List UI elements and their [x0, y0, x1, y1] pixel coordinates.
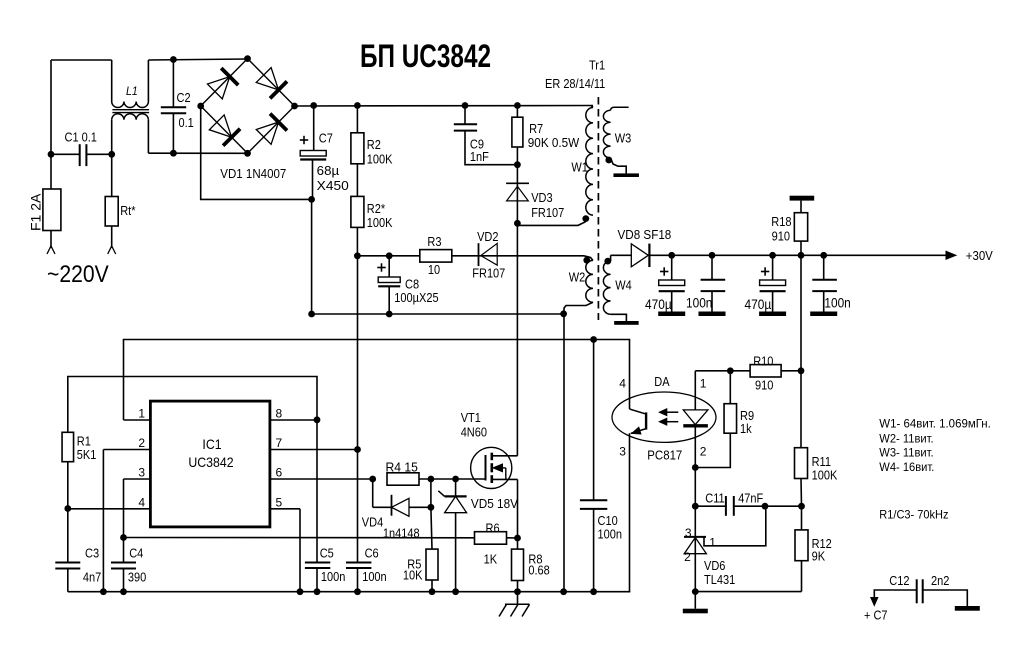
svg-text:4n7: 4n7 [83, 571, 101, 585]
svg-text:C4: C4 [129, 547, 143, 561]
svg-text:БП UC3842: БП UC3842 [360, 38, 491, 74]
svg-text:5: 5 [276, 495, 283, 509]
svg-text:1: 1 [709, 536, 716, 550]
svg-text:6: 6 [276, 466, 283, 480]
svg-text:ER 28/14/11: ER 28/14/11 [545, 77, 605, 91]
svg-text:VD5 18V: VD5 18V [471, 497, 519, 511]
svg-text:100n: 100n [362, 570, 387, 584]
svg-text:Tr1: Tr1 [589, 59, 605, 73]
svg-text:X450: X450 [317, 179, 349, 193]
svg-text:4N60: 4N60 [461, 425, 487, 439]
svg-text:3: 3 [685, 526, 692, 540]
svg-text:1nF: 1nF [470, 150, 489, 164]
svg-text:R10: R10 [753, 355, 773, 369]
svg-text:W4: W4 [615, 279, 632, 293]
svg-text:PC817: PC817 [647, 448, 682, 463]
svg-text:100n: 100n [824, 296, 850, 311]
svg-text:C5: C5 [320, 547, 334, 561]
svg-text:4: 4 [619, 377, 626, 391]
svg-text:C12: C12 [889, 574, 909, 588]
svg-text:1K: 1K [484, 553, 498, 567]
svg-text:R3: R3 [427, 235, 441, 249]
svg-text:2: 2 [138, 436, 145, 450]
svg-text:VT1: VT1 [461, 411, 481, 425]
svg-text:R9: R9 [740, 409, 754, 423]
svg-text:R6: R6 [486, 522, 500, 536]
svg-text:R2*: R2* [367, 202, 385, 216]
svg-text:UC3842: UC3842 [188, 454, 233, 470]
svg-text:C11: C11 [705, 492, 724, 506]
svg-text:F1 2A: F1 2A [28, 193, 44, 231]
svg-text:1: 1 [700, 377, 707, 391]
svg-text:100µX25: 100µX25 [394, 291, 438, 305]
svg-text:470µ: 470µ [645, 297, 672, 312]
svg-text:R18: R18 [771, 215, 791, 229]
svg-text:FR107: FR107 [531, 206, 564, 220]
svg-text:2: 2 [684, 550, 691, 564]
svg-text:Rt*: Rt* [120, 204, 135, 218]
svg-text:90K 0.5W: 90K 0.5W [528, 136, 580, 150]
svg-text:4: 4 [138, 495, 145, 509]
svg-text:R7: R7 [529, 122, 543, 136]
svg-text:R2: R2 [367, 138, 381, 152]
svg-text:W2- 11вит.: W2- 11вит. [879, 431, 933, 445]
svg-text:W1: W1 [571, 161, 588, 175]
svg-text:C3: C3 [85, 547, 99, 561]
svg-text:1k: 1k [740, 422, 752, 436]
svg-text:8: 8 [276, 407, 283, 421]
svg-text:VD1 1N4007: VD1 1N4007 [220, 167, 286, 181]
svg-text:47nF: 47nF [738, 492, 763, 506]
svg-text:TL431: TL431 [704, 573, 735, 587]
svg-text:R1/C3- 70kHz: R1/C3- 70kHz [879, 507, 948, 521]
svg-text:0.1: 0.1 [179, 116, 194, 130]
svg-text:3: 3 [138, 466, 145, 480]
svg-text:+30V: +30V [966, 248, 993, 263]
svg-text:VD2: VD2 [477, 230, 498, 244]
svg-text:C8: C8 [405, 278, 419, 292]
svg-text:VD4: VD4 [362, 516, 383, 530]
svg-text:VD8 SF18: VD8 SF18 [618, 228, 672, 242]
svg-text:3: 3 [619, 445, 626, 459]
svg-text:7: 7 [276, 436, 283, 450]
svg-text:VD6: VD6 [704, 559, 725, 573]
svg-text:100n: 100n [598, 527, 623, 541]
svg-text:VD3: VD3 [531, 191, 552, 205]
svg-text:100K: 100K [367, 216, 393, 230]
svg-text:C2: C2 [177, 91, 191, 105]
svg-text:IC1: IC1 [202, 436, 221, 452]
svg-text:100n: 100n [686, 296, 712, 311]
svg-text:1: 1 [138, 407, 145, 421]
svg-text:1n4148: 1n4148 [383, 527, 420, 541]
svg-text:910: 910 [772, 229, 790, 243]
svg-text:C6: C6 [365, 547, 379, 561]
svg-text:FR107: FR107 [472, 266, 505, 280]
svg-text:910: 910 [755, 379, 773, 393]
svg-text:10K: 10K [403, 568, 423, 582]
svg-text:68µ: 68µ [317, 164, 339, 178]
svg-text:W4- 16вит.: W4- 16вит. [879, 460, 934, 474]
svg-text:+ C7: + C7 [864, 608, 888, 622]
svg-text:5K1: 5K1 [77, 448, 97, 462]
svg-text:390: 390 [128, 571, 146, 585]
svg-text:~220V: ~220V [47, 261, 109, 288]
svg-text:R11: R11 [812, 455, 831, 469]
svg-text:W2: W2 [569, 271, 586, 285]
svg-text:470µ: 470µ [745, 297, 772, 312]
svg-text:R4 15: R4 15 [386, 461, 418, 475]
svg-text:DA: DA [654, 375, 670, 389]
svg-text:C1 0.1: C1 0.1 [65, 131, 97, 145]
svg-text:100K: 100K [812, 468, 838, 482]
svg-text:L1: L1 [126, 84, 138, 98]
svg-text:2: 2 [700, 445, 707, 459]
svg-text:100K: 100K [367, 153, 393, 167]
svg-text:100n: 100n [321, 570, 346, 584]
svg-text:C10: C10 [598, 514, 618, 528]
svg-text:10: 10 [428, 263, 440, 277]
svg-text:C7: C7 [319, 132, 333, 146]
svg-text:0.68: 0.68 [528, 564, 549, 578]
svg-text:W3: W3 [615, 131, 632, 145]
svg-text:2n2: 2n2 [931, 574, 949, 588]
svg-text:W1- 64вит. 1.069мГн.: W1- 64вит. 1.069мГн. [879, 417, 991, 431]
svg-text:9K: 9K [812, 550, 826, 564]
svg-text:R1: R1 [77, 434, 91, 448]
svg-text:W3- 11вит.: W3- 11вит. [879, 446, 933, 460]
